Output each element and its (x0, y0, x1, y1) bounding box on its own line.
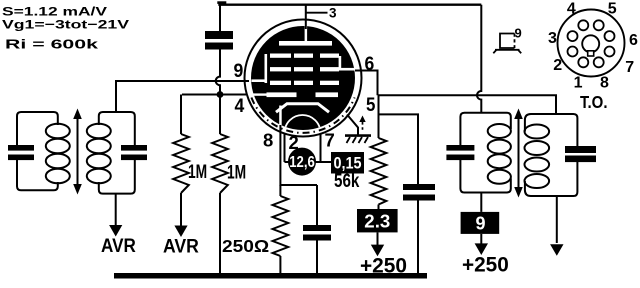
tube U1 inner disc (251, 26, 355, 130)
wire heater pin 7 lead (320, 133, 322, 162)
svg-text:Ri = 600k: Ri = 600k (5, 36, 99, 51)
svg-text:1M: 1M (227, 162, 246, 183)
wire top rail from C1 to right transformer feed (218, 3, 481, 5)
wire C1 bottom with hop over grid wire, to node A (216, 50, 220, 93)
svg-text:2: 2 (553, 57, 562, 74)
tube U1 grid g3 dashes (270, 54, 291, 58)
heater voltage disc 12,6 (288, 148, 316, 176)
transformer T1 primary winding (left) (17, 112, 58, 145)
arrow to +250 (screen) (377, 232, 379, 245)
resistor R2 1M (right) (219, 95, 221, 135)
arrow T2 secondary output (556, 196, 558, 243)
socket outline (558, 10, 625, 77)
tube U1 grid link right (to pin 6) (339, 56, 342, 70)
svg-text:3: 3 (329, 5, 337, 20)
svg-text:6: 6 (629, 32, 638, 49)
capacitor C7 (T2 secondary tuning) (565, 146, 596, 153)
wire screen node down (378, 95, 380, 138)
chassis ground (345, 134, 371, 137)
resistor R3 250 ohm (279, 185, 281, 196)
arrow to +250 (anode) (480, 234, 482, 244)
capacitor C5 screen bypass (403, 184, 435, 190)
resistor R4 56k (371, 138, 387, 205)
resistor R1 1M (left) (180, 95, 182, 135)
wire heater bus (285, 161, 332, 163)
socket center key (582, 35, 599, 52)
svg-text:9: 9 (515, 26, 522, 41)
capacitor C4 cathode bypass (316, 185, 318, 225)
svg-text:8: 8 (600, 75, 609, 92)
transformer T2 secondary winding (525, 114, 578, 146)
wire T2 feed from top rail with hop (477, 5, 481, 113)
capacitor C2 (T1 primary tuning) (8, 145, 34, 151)
transformer T1 tuning arrow (77, 117, 79, 186)
tube U1 internal shield dash-dot arc (251, 98, 354, 133)
svg-text:3: 3 (548, 30, 557, 47)
svg-text:12,6: 12,6 (289, 154, 315, 171)
wire long anode line to T2 with hop (378, 95, 557, 114)
svg-text:5: 5 (608, 1, 617, 18)
wire pin 4 horizontal (182, 94, 246, 96)
current box 9 (480, 193, 482, 212)
capacitor C3 (T1 secondary tuning) (121, 145, 147, 151)
wire pin 6 out and down (355, 71, 378, 96)
AVR feed arrow from T1 secondary bottom (115, 194, 117, 226)
tube U1 cathode chevron (276, 104, 329, 113)
heater current box 0,15 (331, 152, 364, 174)
shield box pin 9 symbol (500, 34, 515, 49)
svg-text:T.O.: T.O. (580, 92, 608, 112)
svg-text:S=1.12 mA/V: S=1.12 mA/V (2, 4, 108, 18)
svg-text:9: 9 (234, 61, 244, 82)
capacitor C6 (T2 primary tuning) (446, 145, 474, 151)
pin 1 arrow marker (359, 116, 365, 123)
wire shield lead to chassis (347, 115, 358, 135)
svg-text:1M: 1M (188, 162, 207, 183)
tube U1 anode bar (279, 41, 332, 46)
tube U1 envelope outer circle (245, 20, 362, 137)
svg-text:4: 4 (235, 96, 245, 117)
wire heater pin 2 lead (284, 133, 286, 162)
tube U1 grid g2 dashes (270, 67, 291, 71)
svg-text:56k: 56k (334, 170, 360, 192)
svg-text:5: 5 (366, 95, 376, 116)
svg-text:6: 6 (365, 54, 375, 75)
tube U1 grid g1 dashes (270, 81, 291, 85)
svg-text:1: 1 (574, 75, 583, 92)
current box 2.3 (357, 209, 398, 232)
svg-text:AVR: AVR (101, 236, 136, 257)
transformer T2 tuning arrow (518, 117, 520, 189)
svg-text:7: 7 (325, 129, 335, 150)
tube U1 grid side rail left (to pin 9) (265, 54, 268, 83)
wire screen node to bypass cap (379, 114, 419, 184)
tube U1 beam plates row (267, 92, 297, 97)
svg-text:AVR: AVR (163, 237, 199, 258)
ground rail (114, 273, 427, 279)
svg-text:4: 4 (567, 1, 576, 18)
transformer T1 secondary winding (right) (99, 112, 135, 145)
capacitor C1 (anode-grid, top left) (219, 5, 221, 31)
socket pin holes (578, 57, 588, 67)
wire grid: pin 9 to T1 secondary top (116, 81, 249, 112)
svg-text:2.3: 2.3 (364, 212, 390, 232)
svg-text:7: 7 (625, 59, 634, 76)
tube U1 heater circle (285, 115, 321, 151)
svg-text:Vg1=−3tot−21V: Vg1=−3tot−21V (2, 18, 130, 32)
transformer T2 primary winding (460, 113, 510, 145)
svg-text:9: 9 (475, 213, 485, 233)
node A junction dot (217, 91, 224, 98)
svg-text:+250: +250 (462, 253, 509, 276)
wire cathode pin 8 down (280, 125, 317, 185)
wire anode pin 3 to top rail (305, 5, 307, 29)
svg-text:250Ω: 250Ω (222, 236, 269, 256)
svg-text:8: 8 (263, 130, 273, 151)
